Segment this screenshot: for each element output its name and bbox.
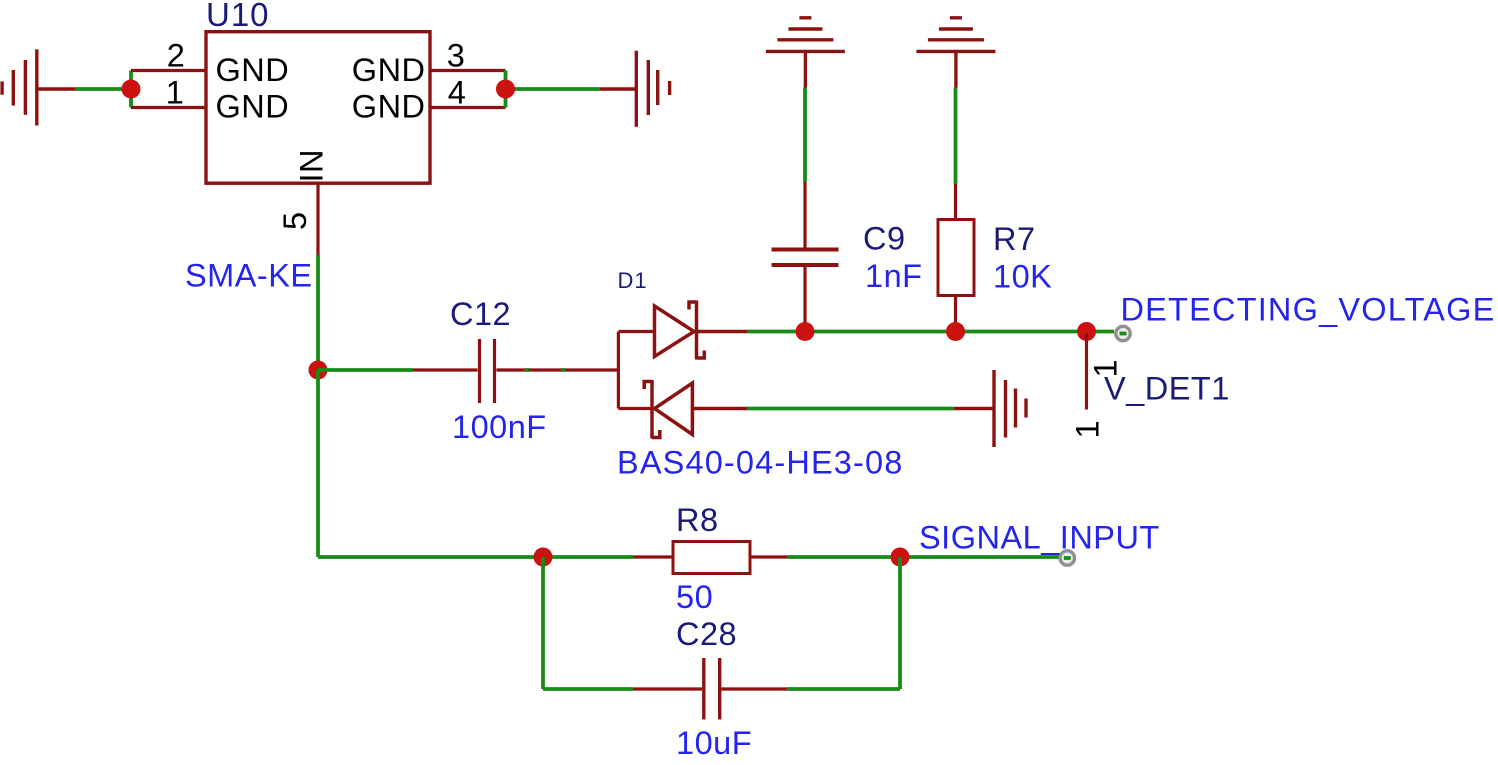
resistor R7 [938, 184, 974, 332]
svg-text:100nF: 100nF [452, 409, 547, 445]
junction at C12 input [309, 361, 328, 380]
wire SMA-KE down to R8/C28 [318, 370, 633, 557]
svg-text:R8: R8 [676, 502, 719, 538]
ground GND-D (above R7) [916, 18, 995, 88]
wire bottom diode to ground [747, 407, 954, 411]
diode D1 bottom half (schottky cathode left, anode right) [644, 380, 747, 439]
wire tick C12 to D1 [525, 368, 565, 372]
svg-text:DETECTING_VOLTAGE: DETECTING_VOLTAGE [1121, 292, 1496, 328]
wire pins 3/4 to GND-B [506, 71, 601, 108]
svg-text:BAS40-04-HE3-08: BAS40-04-HE3-08 [617, 445, 903, 481]
diode D1 common lead [618, 332, 654, 409]
testpoint V_DET1 pin [1085, 333, 1088, 410]
svg-text:GND: GND [352, 52, 426, 88]
wire pin5 down to junction [316, 255, 320, 370]
wire junction to C12 [318, 368, 413, 372]
svg-text:5: 5 [277, 211, 313, 230]
port pin end DETECTING_VOLTAGE [1116, 326, 1130, 340]
svg-text:1: 1 [166, 75, 185, 111]
svg-text:2: 2 [167, 38, 186, 74]
junction at R8 right [891, 548, 910, 567]
svg-text:C12: C12 [450, 296, 511, 332]
svg-text:SMA-KE: SMA-KE [185, 258, 313, 294]
svg-text:SIGNAL_INPUT: SIGNAL_INPUT [919, 520, 1160, 556]
U10 pin 5 [316, 183, 319, 255]
svg-text:1: 1 [1070, 420, 1106, 439]
diode D1 top half (anode left, schottky cathode right) [655, 301, 748, 360]
capacitor C9 [772, 182, 839, 332]
svg-text:1nF: 1nF [865, 258, 923, 294]
svg-text:C28: C28 [676, 616, 737, 652]
svg-text:50: 50 [676, 579, 713, 615]
port pin end SIGNAL_INPUT [1060, 551, 1074, 565]
wire R8 to SIGNAL_INPUT port [787, 555, 1059, 559]
svg-text:R7: R7 [993, 221, 1036, 257]
svg-text:GND: GND [352, 89, 426, 125]
U10 pin 4 [430, 106, 506, 109]
wire DETECTING_VOLTAGE net [747, 330, 1114, 334]
ground GND-E (right of bottom diode) [954, 370, 1026, 447]
wire from GND-A to pins 1/2 [75, 71, 131, 108]
junction at R7 [946, 322, 965, 341]
svg-text:GND: GND [216, 89, 290, 125]
capacitor C28 [633, 658, 787, 720]
capacitor C12 [413, 339, 618, 403]
ground GND-A (left of U10) [2, 49, 75, 125]
svg-text:V_DET1: V_DET1 [1104, 371, 1230, 407]
wire C28 branch right [787, 557, 900, 689]
U10 pin 1 [131, 106, 206, 109]
junction at pins 3/4 [496, 80, 515, 99]
svg-text:C9: C9 [863, 221, 906, 257]
svg-text:GND: GND [216, 52, 290, 88]
svg-text:10K: 10K [993, 259, 1052, 295]
U10 pin 2 [131, 69, 206, 72]
junction at V_DET1 [1077, 322, 1096, 341]
wire GND-C to C9 [803, 88, 807, 183]
wire GND-D to R7 [954, 88, 958, 185]
U10 pin 3 [430, 69, 506, 72]
connector U10 body [206, 32, 430, 184]
junction at pins 1/2 [122, 80, 141, 99]
svg-text:D1: D1 [618, 268, 648, 293]
svg-text:IN: IN [294, 149, 330, 183]
svg-text:3: 3 [447, 38, 466, 74]
junction at R8 left [534, 548, 553, 567]
junction at C9 [796, 322, 815, 341]
ground GND-B (right of U10) [600, 51, 670, 127]
svg-text:U10: U10 [206, 0, 270, 33]
svg-text:10uF: 10uF [676, 725, 752, 760]
svg-text:4: 4 [448, 75, 467, 111]
resistor R8 [633, 542, 787, 574]
wire C28 branch left [543, 557, 633, 689]
ground GND-C (above C9) [766, 18, 845, 88]
